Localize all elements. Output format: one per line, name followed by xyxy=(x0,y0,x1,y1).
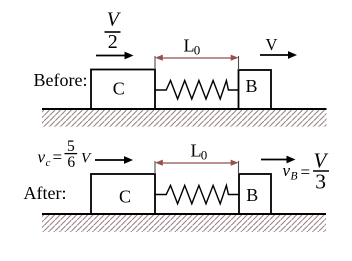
svg-text:C: C xyxy=(119,187,131,207)
ground line (before) xyxy=(42,108,327,110)
svg-text:5: 5 xyxy=(67,138,75,155)
svg-text:After:: After: xyxy=(24,183,67,203)
block C (after) xyxy=(91,174,155,214)
svg-text:0: 0 xyxy=(201,148,208,163)
label L0 (after) xyxy=(191,141,208,163)
svg-text:0: 0 xyxy=(194,42,201,57)
label L0 (before) xyxy=(184,35,201,57)
spring (before) xyxy=(155,81,239,100)
label V/2 fraction (top-left velocity of C) xyxy=(105,9,122,54)
arrow for V (velocity of block B, before) xyxy=(260,51,297,59)
svg-text:v: v xyxy=(38,148,46,167)
extension line right (before, from dimension to block B corner) xyxy=(238,56,240,70)
arrow for V/2 (velocity of block C, before) xyxy=(96,52,134,60)
extension line left (after) xyxy=(154,161,156,174)
ground line (after) xyxy=(42,213,326,215)
svg-text:B: B xyxy=(291,171,298,183)
arrow for v_B (after) xyxy=(261,156,296,164)
svg-text:V: V xyxy=(266,35,278,54)
equation v_c = 5/6 V (after, velocity of C) xyxy=(38,138,93,171)
ground hatching (before) xyxy=(42,110,327,127)
svg-text:c: c xyxy=(46,157,51,169)
block B (before) xyxy=(239,70,272,109)
svg-text:6: 6 xyxy=(67,154,75,171)
ground hatching (after) xyxy=(42,215,326,232)
svg-text:3: 3 xyxy=(315,170,326,194)
block C (before) xyxy=(91,70,155,110)
svg-text:=: = xyxy=(301,163,311,182)
svg-text:2: 2 xyxy=(108,31,118,53)
svg-text:=: = xyxy=(53,148,63,167)
svg-text:B: B xyxy=(245,76,257,96)
svg-text:B: B xyxy=(246,185,258,205)
block B (after) xyxy=(239,174,271,214)
svg-text:C: C xyxy=(113,79,125,99)
extension line left (before, from dimension to block C corner) xyxy=(154,56,156,70)
equation v_B = V/3 (after, velocity of B) xyxy=(283,149,330,194)
svg-text:v: v xyxy=(283,161,291,180)
svg-text:Before:: Before: xyxy=(34,70,88,90)
arrow for v_c (after) xyxy=(95,156,133,164)
dimension arrow L0 (before) xyxy=(155,55,239,61)
dimension arrow L0 (after) xyxy=(155,160,239,166)
spring (after) xyxy=(155,185,239,203)
extension line right (after) xyxy=(238,161,240,174)
